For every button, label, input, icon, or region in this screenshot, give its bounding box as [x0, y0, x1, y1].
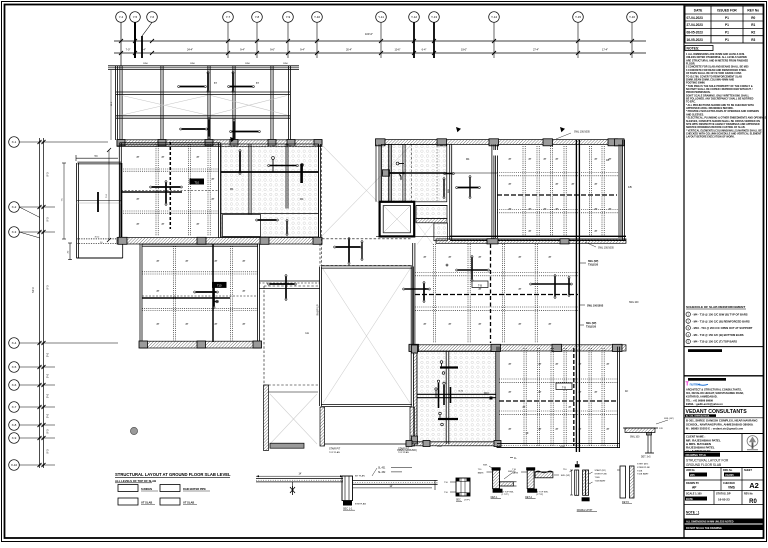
svg-text:B/T PLAN: B/T PLAN	[355, 475, 365, 478]
svg-text:R0: R0	[751, 16, 755, 20]
svg-text:SWL (SP): SWL (SP)	[586, 323, 597, 325]
svg-text:6-4": 6-4"	[422, 48, 427, 52]
svg-text:1B: 1B	[606, 158, 609, 162]
svg-text:STIRR PLNK: STIRR PLNK	[637, 467, 650, 469]
svg-text:ruline: ruline	[690, 382, 702, 387]
svg-text:AT TOP SWL: AT TOP SWL	[536, 490, 549, 493]
svg-text:R2: R2	[751, 31, 755, 35]
svg-text:7-0": 7-0"	[126, 48, 131, 52]
svg-text:T10@150: T10@150	[588, 265, 599, 267]
svg-text:A2: A2	[749, 481, 759, 490]
svg-text:P1: P1	[725, 31, 729, 35]
svg-text:T-B: T-B	[562, 386, 566, 389]
svg-text:NOTES:: NOTES:	[687, 47, 700, 51]
svg-text:Er. V.M. SHRIVASTAVA: Er. V.M. SHRIVASTAVA	[686, 415, 710, 418]
svg-text:Y-16: Y-16	[629, 15, 635, 19]
svg-text:- M16 - T10 @ 200 C/C OPEN OUT: - M16 - T10 @ 200 C/C OPEN OUT AT SUPPOR…	[692, 326, 753, 330]
svg-text:SHEET: SHEET	[744, 469, 753, 472]
svg-text:- M4 - T10 @ 150 C/C (B) BOTTO: - M4 - T10 @ 150 C/C (B) BOTTOM BARS	[692, 333, 744, 337]
svg-text:T10B: T10B	[637, 470, 643, 472]
svg-text:3050: 3050	[437, 446, 443, 448]
svg-text:9-6": 9-6"	[270, 48, 275, 52]
svg-text:T10: T10	[217, 284, 222, 288]
svg-text:(1 TYP): (1 TYP)	[502, 494, 509, 496]
svg-text:SWL 100/100S: SWL 100/100S	[587, 305, 604, 308]
svg-text:UT SLAB: UT SLAB	[141, 501, 152, 505]
svg-text:54'-0: 54'-0	[31, 287, 35, 293]
svg-text:16-05-2023: 16-05-2023	[687, 38, 704, 42]
svg-text:Y-15: Y-15	[575, 15, 581, 19]
svg-text:07-04-2023: 07-04-2023	[687, 16, 704, 20]
svg-text:START (BY): START (BY)	[595, 469, 607, 472]
svg-text:SWL (SP): SWL (SP)	[664, 418, 674, 420]
svg-text:KOTHRUD, AHMEDABAD.: KOTHRUD, AHMEDABAD.	[686, 395, 718, 399]
svg-text:M : 98985 55555 E : vedant.st: M : 98985 55555 E : vedant.str@gmail.com	[686, 427, 744, 431]
svg-text:20-4": 20-4"	[346, 48, 352, 52]
svg-text:1850: 1850	[245, 63, 251, 65]
svg-text:RAIN WATER PIPE: RAIN WATER PIPE	[183, 487, 206, 491]
svg-text:B.26: B.26	[459, 391, 464, 393]
svg-text:BTM PLAN: BTM PLAN	[355, 503, 366, 506]
svg-text:- M4 - T10 @ 150 C/C (T) TOP B: - M4 - T10 @ 150 C/C (T) TOP BARS	[692, 340, 737, 344]
svg-text:TEL : +91 99999 99999: TEL : +91 99999 99999	[686, 398, 714, 402]
svg-text:9-4": 9-4"	[240, 48, 245, 52]
svg-text:9'-0: 9'-0	[47, 449, 50, 454]
svg-text:VEDANT CONSULTANTS: VEDANT CONSULTANTS	[686, 409, 748, 415]
svg-text:ISSUED FOR: ISSUED FOR	[717, 9, 737, 13]
svg-text:- M4 - T10 @ 150 C/C B/W (B) T: - M4 - T10 @ 150 C/C B/W (B) TYP OF BARS	[692, 313, 748, 317]
svg-text:T10: T10	[194, 180, 199, 184]
svg-text:X-5: X-5	[12, 365, 17, 369]
svg-text:T-B: T-B	[478, 284, 482, 287]
svg-text:1F: 1F	[625, 389, 629, 393]
svg-text:SWL 100/1005: SWL 100/1005	[574, 131, 590, 134]
svg-text:301, DEVALOK HEIGHT, SWASTHSHR: 301, DEVALOK HEIGHT, SWASTHSHREE ROAD,	[686, 391, 744, 395]
svg-text:LAYOUT BEFORE EXECUTION OF WOR: LAYOUT BEFORE EXECUTION OF WORK.	[686, 136, 735, 139]
svg-text:9'-0: 9'-0	[47, 172, 50, 177]
svg-text:ALL LEVELS OF TOP OF SLAB: ALL LEVELS OF TOP OF SLAB	[115, 479, 156, 483]
svg-text:9'-0: 9'-0	[47, 413, 50, 418]
svg-text:RAMP UP: RAMP UP	[317, 304, 320, 315]
svg-text:STATUS_DP: STATUS_DP	[716, 493, 731, 496]
svg-text:SCHEDULE OF SLAB REINFORCEMENT: SCHEDULE OF SLAB REINFORCEMENT	[686, 305, 745, 309]
svg-text:NOTE : 1: NOTE : 1	[686, 511, 700, 515]
svg-text:T10B BART: T10B BART	[595, 480, 607, 483]
svg-text:REV No: REV No	[747, 9, 759, 13]
svg-text:16-05-23: 16-05-23	[718, 498, 730, 502]
svg-text:100'-0": 100'-0"	[365, 32, 373, 36]
svg-text:At : AHMEDABAD: At : AHMEDABAD	[686, 449, 710, 453]
svg-text:OPEN (GROUND): OPEN (GROUND)	[397, 449, 417, 452]
svg-text:- M4 - T10 @ 150 C/C (B) REINF: - M4 - T10 @ 150 C/C (B) REINFORCED BARS	[692, 319, 750, 323]
svg-text:Y-14: Y-14	[491, 15, 497, 19]
svg-text:Y-13: Y-13	[431, 15, 437, 19]
svg-text:1F: 1F	[525, 431, 529, 435]
svg-text:DATE: DATE	[686, 497, 693, 501]
svg-text:(1 TYP): (1 TYP)	[536, 494, 543, 496]
svg-text:9'-0: 9'-0	[47, 393, 50, 398]
svg-text:STIRT (BY): STIRT (BY)	[637, 464, 648, 466]
svg-text:DET-2: DET-2	[525, 496, 532, 499]
svg-text:ARE STRUCTURAL AND IN METERS F: ARE STRUCTURAL AND IN METERS FROM FINISH…	[686, 59, 748, 62]
svg-text:P1: P1	[725, 38, 729, 42]
svg-text:SWL 100: SWL 100	[629, 302, 639, 304]
svg-text:3050: 3050	[560, 446, 566, 448]
svg-text:19-0": 19-0"	[461, 48, 467, 52]
svg-text:P1: P1	[725, 16, 729, 20]
svg-text:Y-8: Y-8	[255, 15, 260, 19]
svg-text:225: 225	[690, 473, 695, 477]
svg-text:R3: R3	[751, 38, 755, 42]
svg-text:X-8: X-8	[12, 423, 17, 427]
svg-text:ALL DIMENSIONS IN MM UNLESS NO: ALL DIMENSIONS IN MM UNLESS NOTED	[686, 521, 734, 524]
svg-text:(TYP): (TYP)	[464, 500, 470, 502]
svg-text:T10@150: T10@150	[586, 327, 597, 329]
svg-text:1A: 1A	[305, 331, 309, 335]
svg-text:1B: 1B	[628, 185, 632, 189]
svg-text:ARCHITECT & STRUCTURAL CONSULT: ARCHITECT & STRUCTURAL CONSULTANTS,	[686, 388, 742, 392]
svg-text:16-2: 16-2	[111, 101, 113, 106]
svg-text:M16: M16	[484, 392, 489, 395]
svg-text:R1: R1	[751, 23, 755, 27]
svg-text:1850: 1850	[283, 63, 289, 65]
svg-text:1850: 1850	[143, 63, 149, 65]
svg-text:17-4": 17-4"	[602, 48, 608, 52]
svg-text:TOP PLAN: TOP PLAN	[329, 451, 340, 454]
svg-text:SL.451: SL.451	[378, 467, 386, 469]
svg-text:X-10: X-10	[11, 463, 18, 467]
svg-text:SL.452: SL.452	[378, 472, 386, 474]
svg-text:SWL (SP): SWL (SP)	[588, 261, 599, 263]
svg-text:08-05-2023: 08-05-2023	[687, 31, 704, 35]
svg-text:Y-12: Y-12	[411, 15, 417, 19]
svg-text:VC/225: VC/225	[725, 473, 734, 477]
svg-text:Y-6: Y-6	[150, 15, 155, 19]
svg-text:Y-11: Y-11	[378, 15, 384, 19]
svg-text:X-1: X-1	[12, 140, 17, 144]
svg-text:SWL 100/1005: SWL 100/1005	[598, 247, 614, 250]
svg-text:Y-7: Y-7	[226, 15, 231, 19]
svg-text:VMS: VMS	[728, 486, 735, 490]
svg-text:X-2: X-2	[12, 205, 17, 209]
svg-text:UT SLAB: UT SLAB	[183, 501, 194, 505]
svg-text:27-4": 27-4"	[533, 48, 539, 52]
svg-text:AT TOP SWL: AT TOP SWL	[502, 490, 515, 493]
svg-text:DO NOT SCALE THE DRAWING: DO NOT SCALE THE DRAWING	[686, 527, 722, 530]
svg-text:9'-0: 9'-0	[47, 352, 50, 357]
svg-text:SWL 100: SWL 100	[630, 437, 640, 439]
svg-text:X-7: X-7	[12, 405, 17, 409]
svg-text:14': 14'	[298, 473, 302, 476]
svg-text:9'-0: 9'-0	[47, 429, 50, 434]
svg-text:STIRR PLNK: STIRR PLNK	[595, 474, 608, 476]
svg-text:9'-0: 9'-0	[47, 373, 50, 378]
svg-text:DATE: DATE	[694, 9, 702, 13]
svg-text:9-4": 9-4"	[300, 48, 305, 52]
svg-text:DET-1: DET-1	[491, 496, 498, 499]
svg-text:Y-9: Y-9	[286, 15, 291, 19]
svg-text:BARS: BARS	[478, 471, 484, 474]
svg-text:Y-10: Y-10	[314, 15, 320, 19]
svg-text:X-9: X-9	[12, 436, 17, 440]
svg-text:GROUND FLOOR SLAB: GROUND FLOOR SLAB	[686, 463, 721, 467]
svg-text:SUNKEN: SUNKEN	[141, 487, 152, 491]
svg-text:REV No: REV No	[744, 493, 753, 496]
svg-text:27-04-2023: 27-04-2023	[687, 23, 704, 27]
svg-text:Y-5: Y-5	[133, 15, 138, 19]
svg-text:14': 14'	[389, 485, 393, 488]
svg-text:STAIR PIT: STAIR PIT	[329, 448, 341, 451]
svg-text:9'-0: 9'-0	[47, 217, 50, 222]
svg-text:9'-0: 9'-0	[47, 285, 50, 290]
svg-text:STRUCTURAL LAYOUT AT GROUND FL: STRUCTURAL LAYOUT AT GROUND FLOOR SLAB L…	[115, 472, 231, 477]
svg-text:X-6: X-6	[12, 383, 17, 387]
svg-text:P1: P1	[725, 23, 729, 27]
svg-text:SCALE 1:100: SCALE 1:100	[686, 493, 702, 496]
svg-text:X-4: X-4	[12, 341, 17, 345]
svg-text:JOB No: JOB No	[686, 469, 695, 472]
svg-text:SWL (SP): SWL (SP)	[561, 475, 570, 477]
svg-text:T10B: T10B	[595, 477, 601, 479]
svg-text:DRG No: DRG No	[723, 469, 733, 472]
svg-text:SEC 1-1: SEC 1-1	[343, 507, 353, 510]
svg-text:R0: R0	[749, 499, 757, 505]
svg-text:3-4": 3-4"	[141, 48, 146, 52]
svg-text:EMAIL : gadhi-archi@yahoo.in: EMAIL : gadhi-archi@yahoo.in	[686, 402, 723, 406]
svg-text:DRAWING TITLE: DRAWING TITLE	[686, 453, 707, 457]
svg-text:DET-5: DET-5	[622, 501, 629, 504]
svg-text:T10B BART: T10B BART	[637, 473, 649, 476]
svg-text:24-4": 24-4"	[187, 48, 193, 52]
svg-text:DET. 3+5: DET. 3+5	[641, 457, 651, 459]
svg-text:X-3: X-3	[12, 230, 17, 234]
svg-text:1850: 1850	[190, 63, 196, 65]
svg-text:BE FOLLOWED. ANY DISCREPANCY S: BE FOLLOWED. ANY DISCREPANCY SHALL BE NO…	[686, 98, 754, 101]
svg-text:10-6": 10-6"	[394, 48, 400, 52]
svg-text:BARS: BARS	[512, 471, 518, 474]
svg-text:Y-4: Y-4	[119, 15, 124, 19]
